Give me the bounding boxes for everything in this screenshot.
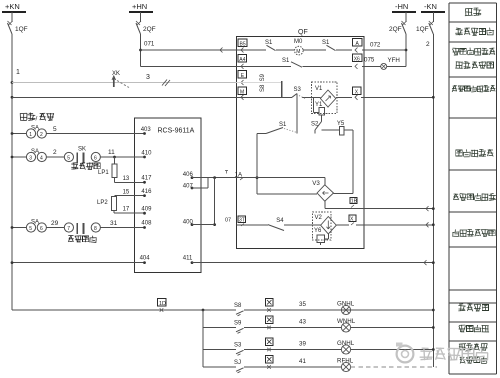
wire 075 to YFH lamp [362, 57, 381, 67]
wire 5 to RCS 403 [46, 126, 146, 135]
pressure plate LP1 [98, 157, 117, 178]
switch S1 row1 second [322, 40, 336, 51]
switch S3 lamp row C [234, 338, 355, 355]
svg-text:S8: S8 [234, 303, 242, 309]
terminal 400 label [183, 220, 194, 227]
svg-text:GNHL: GNHL [337, 301, 355, 308]
svg-text:41: 41 [299, 358, 306, 365]
wire 072 to -HN [362, 42, 406, 51]
svg-text:071: 071 [144, 41, 155, 48]
wire SA row2 from +KN [11, 156, 27, 159]
contact drop vertical x297 [296, 94, 298, 134]
switch S1 row1 first [265, 40, 276, 51]
switch SJ lamp row D [234, 356, 354, 373]
svg-text:-KN: -KN [424, 2, 437, 11]
wire4 +KN to QF [12, 96, 237, 98]
connector XK [112, 71, 129, 88]
svg-text:11: 11 [108, 149, 115, 156]
junction dot branch [202, 309, 205, 312]
svg-text:RFHL: RFHL [337, 358, 354, 365]
junction dot +KN wire3 [11, 81, 14, 84]
svg-text:408: 408 [141, 221, 152, 227]
svg-text:LP1: LP1 [98, 170, 109, 176]
terminal M QF left row4 [238, 87, 247, 100]
svg-text:410: 410 [141, 151, 152, 157]
wire V2 right [336, 224, 349, 226]
net +KN label [2, 2, 26, 12]
svg-text:3: 3 [29, 156, 32, 162]
wire row4 to -KN rail [361, 96, 435, 99]
wire3 faint from +KN rail [12, 82, 237, 84]
wire row D solid [203, 366, 341, 368]
watermark logo and text [396, 343, 488, 363]
wire row S4 [237, 224, 321, 226]
pressure plate LP2 [97, 197, 116, 211]
svg-text:13: 13 [123, 176, 130, 182]
wire row D dashed [351, 366, 437, 368]
wire -KN rail vertical [432, 34, 434, 367]
switch S2 [311, 115, 322, 134]
terminal B5 QF left row1 [238, 39, 247, 53]
breaker 1QF on -KN rail [416, 12, 434, 34]
svg-text:5: 5 [29, 226, 32, 232]
label local remote [20, 113, 54, 123]
rectifier V1 dashed box [312, 82, 338, 114]
terminal 409 label [141, 207, 152, 213]
switch S9 lamp row B [234, 316, 356, 333]
wire SA row3 from +KN [11, 226, 27, 229]
svg-text:M: M [296, 49, 300, 55]
switch SA row2 [26, 149, 46, 162]
svg-text:S1: S1 [265, 40, 273, 46]
svg-text:403: 403 [141, 127, 152, 133]
terminal 3T QF left [238, 216, 246, 226]
net -HN label [392, 2, 416, 12]
svg-text:LP2: LP2 [97, 200, 108, 206]
node 071 label [144, 41, 155, 48]
svg-text:6: 6 [94, 156, 97, 162]
wire row B [203, 326, 435, 329]
node 3 label [146, 74, 150, 81]
svg-text:1QF: 1QF [416, 26, 429, 33]
svg-text:2: 2 [40, 132, 43, 138]
svg-text:17: 17 [123, 207, 130, 213]
table row motor circuit line1 [452, 48, 495, 56]
rectifier V1 diamond [320, 90, 335, 107]
wire Y5 right link [344, 130, 353, 193]
svg-text:S9: S9 [234, 321, 242, 327]
switch S4 [268, 218, 284, 231]
terminal 416 label [141, 189, 152, 195]
wire +HN rail vertical [139, 34, 142, 66]
table row closing blocking magnet [452, 85, 495, 92]
table row opening current circuit [452, 229, 495, 237]
wire 11 to RCS 410 [100, 149, 146, 159]
terminal 1B QF right [350, 197, 358, 207]
svg-text:1QF: 1QF [15, 26, 28, 33]
wire vertical x257 [256, 134, 259, 195]
wire -HN rail vertical [405, 34, 408, 66]
switch SK row2 [64, 147, 100, 164]
svg-text:2QF: 2QF [389, 26, 402, 33]
svg-text:4: 4 [40, 156, 43, 162]
terminal 407 label [183, 183, 194, 189]
switch S3 row4 [292, 87, 305, 99]
svg-text:2: 2 [53, 149, 57, 156]
wire +KN rail vertical [11, 34, 13, 310]
breaker 1QF on +KN rail [8, 12, 28, 34]
wire 1A into QF [208, 171, 243, 181]
table row work position [459, 325, 489, 332]
svg-text:1: 1 [16, 69, 20, 76]
svg-text:A4: A4 [239, 57, 245, 63]
svg-text:43: 43 [299, 319, 306, 326]
svg-text:1D: 1D [159, 301, 166, 307]
node 2 label [426, 41, 430, 48]
svg-text:3T: 3T [239, 218, 245, 224]
svg-text:5: 5 [67, 156, 70, 162]
terminal A4 QF left row2 [238, 55, 247, 69]
aux switch labels S9 S8 [260, 73, 266, 92]
terminal 403 label [141, 127, 152, 133]
wire row1 inside QF [237, 49, 352, 51]
svg-text:15: 15 [123, 189, 130, 195]
terminal 411 label [183, 256, 194, 265]
svg-text:+KN: +KN [5, 2, 20, 11]
terminal X6 QF right row2 [352, 54, 362, 69]
svg-text:5: 5 [53, 126, 57, 133]
breaker unit QF box [237, 29, 364, 249]
breaker 2QF on -HN rail [389, 12, 407, 34]
terminal 410 label [141, 151, 152, 157]
wire row3 inside QF [237, 82, 282, 84]
svg-text:39: 39 [299, 341, 306, 348]
wire row4 inside QF [237, 96, 352, 98]
wire 411 to -KN rail [192, 260, 435, 265]
svg-text:M: M [240, 89, 244, 95]
table row opening release [456, 149, 493, 157]
wire 406 407 bracket [192, 178, 208, 188]
terminal block 1D [157, 299, 166, 312]
table row charging motor [455, 28, 494, 36]
terminal 408 label [141, 221, 152, 227]
switch SA row1 [26, 126, 46, 139]
terminal 417 label [141, 176, 152, 182]
wire 13 to RCS 417 [115, 176, 146, 184]
wire vertical 214 [213, 178, 216, 226]
svg-text:XK: XK [112, 71, 120, 77]
svg-text:RCS-9611A: RCS-9611A [158, 128, 195, 135]
wire 1A inside QF [237, 177, 325, 179]
svg-text:35: 35 [299, 301, 306, 308]
terminal X QF right row4 [352, 87, 361, 100]
wire 1B to -KN rail [349, 206, 435, 211]
wire 2B to -KN rail [356, 222, 435, 227]
svg-text:Y6: Y6 [314, 228, 322, 234]
terminal 406 label [183, 172, 194, 179]
switch S1 row2 [282, 58, 302, 67]
svg-text:/: / [36, 116, 38, 123]
switch SK row3 [64, 223, 100, 234]
coil Y5 [322, 121, 345, 135]
svg-text:1: 1 [29, 132, 32, 138]
wire 2 to SK [46, 149, 64, 157]
svg-text:404: 404 [140, 256, 151, 262]
lamp YFH [381, 57, 400, 69]
svg-text:V1: V1 [315, 86, 323, 92]
svg-text:M0: M0 [294, 39, 303, 45]
table row closing coil circuit [453, 193, 496, 201]
svg-text:075: 075 [364, 57, 375, 64]
svg-text:2: 2 [426, 41, 430, 48]
switch S1 mid [257, 122, 297, 134]
rectifier V2 diamond [321, 217, 337, 234]
aux contact bar S9S8 [281, 81, 283, 97]
table row test position [458, 304, 488, 312]
junction dot +KN wire4 [11, 96, 14, 99]
svg-text:S4: S4 [276, 218, 284, 224]
break mark on wire3 [162, 80, 170, 87]
svg-text:3: 3 [146, 74, 150, 81]
table row motor circuit line2 [455, 61, 493, 69]
svg-text:V3: V3 [312, 180, 320, 187]
svg-text:S8 S9: S8 S9 [260, 73, 266, 92]
svg-text:07: 07 [225, 218, 231, 224]
rectifier V3 [312, 178, 333, 202]
wire 404 from +KN [11, 261, 146, 264]
svg-text:B5: B5 [240, 41, 246, 47]
svg-text:X6: X6 [354, 56, 360, 62]
svg-text:072: 072 [370, 42, 381, 49]
svg-text:31: 31 [110, 220, 118, 227]
breaker 2QF on +HN rail [136, 12, 156, 34]
terminal 2B QF right [349, 215, 356, 225]
svg-text:8: 8 [94, 226, 97, 232]
wire 400 stub [192, 218, 231, 225]
svg-text:S1: S1 [279, 122, 287, 128]
net +HN label [129, 2, 153, 12]
svg-text:411: 411 [183, 256, 193, 262]
svg-text:-HN: -HN [395, 2, 408, 11]
wire V3 to 1B row [325, 201, 349, 208]
svg-text:WNHL: WNHL [337, 318, 356, 325]
svg-text:SK: SK [78, 147, 86, 153]
wire 17 to RCS 409 [114, 207, 146, 215]
svg-text:S3: S3 [294, 87, 302, 93]
relay RCS-9611A box [135, 118, 202, 272]
svg-text:QF: QF [298, 29, 308, 36]
svg-text:SJ: SJ [234, 360, 241, 366]
wire V3 left branch [257, 193, 317, 195]
svg-text:2QF: 2QF [143, 26, 156, 33]
table row power source [465, 8, 481, 16]
wire V3 right branch [334, 192, 353, 194]
svg-text:7: 7 [67, 226, 70, 232]
svg-text:YFH: YFH [388, 57, 400, 64]
table row open position [459, 343, 488, 350]
svg-text:416: 416 [141, 189, 152, 195]
wire branch vertical [202, 310, 204, 367]
net -KN label [421, 2, 445, 12]
wire2 +HN to QF [141, 65, 237, 67]
switch S8 lamp row A [234, 299, 355, 316]
wire 15 to RCS 416 [115, 189, 146, 197]
function table grid [449, 3, 497, 374]
svg-text:6: 6 [40, 226, 43, 232]
svg-text:1B: 1B [351, 199, 358, 205]
wire1 +HN to QF [141, 48, 237, 53]
svg-text:417: 417 [141, 176, 152, 182]
wire SA row1 from +KN [11, 132, 27, 135]
wire YFH to -HN rail [387, 65, 406, 67]
svg-text:S1: S1 [322, 40, 330, 46]
terminal 404 label [140, 256, 151, 262]
svg-text:S1: S1 [282, 58, 290, 64]
svg-text:+HN: +HN [132, 2, 147, 11]
terminal A QF right row1 [352, 39, 362, 53]
svg-text:S3: S3 [234, 343, 242, 349]
wire row2 inside QF [237, 65, 352, 67]
wire row A rail join [432, 309, 435, 312]
node 1 label [16, 69, 20, 76]
svg-text:V2: V2 [315, 215, 323, 221]
svg-text:GNHL: GNHL [337, 340, 355, 347]
svg-text:29: 29 [51, 220, 59, 227]
label local close open [71, 162, 100, 169]
wire row C [203, 348, 435, 351]
table row close position [460, 356, 488, 363]
svg-text:409: 409 [141, 207, 152, 213]
coil Y6 [314, 228, 328, 245]
label local open [68, 235, 96, 242]
coil Y1 [314, 97, 329, 115]
rectifier V2 dashed box [313, 212, 332, 240]
terminal E QF left row3 [238, 71, 247, 85]
wire 29 to SK [46, 220, 64, 228]
wire row A from +KN rail [12, 309, 433, 311]
wire 31 to RCS 408 [100, 220, 146, 229]
motor M0 [294, 39, 303, 55]
switch SA row3 [26, 220, 46, 233]
